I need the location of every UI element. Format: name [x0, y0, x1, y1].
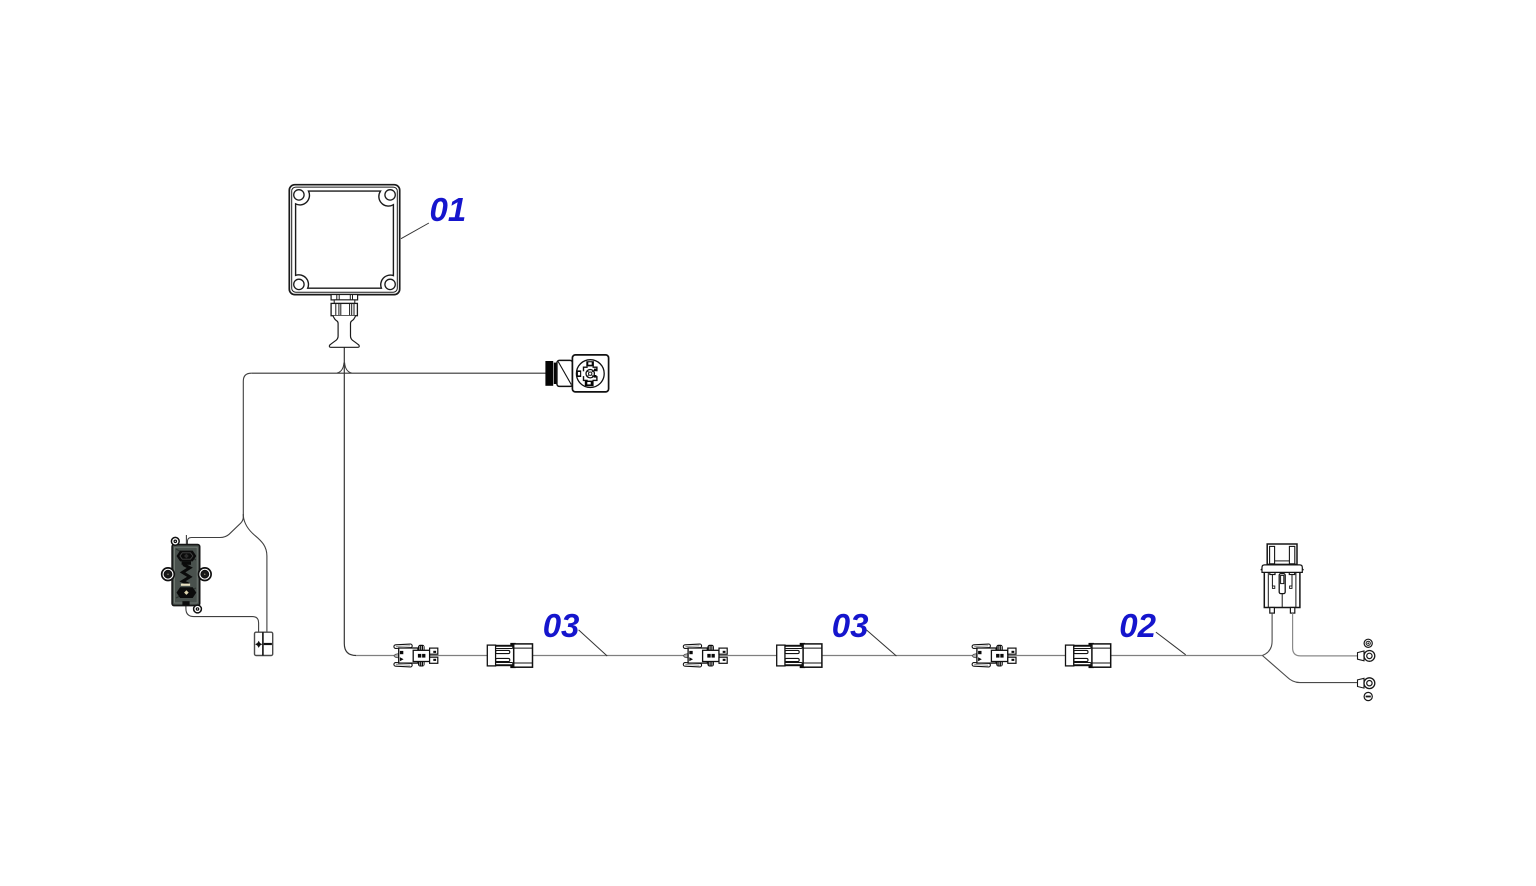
cable gland under module [329, 295, 359, 348]
connector pair 1 [394, 643, 533, 668]
screw hole BL [294, 279, 304, 289]
wire: relay left pin to junction [1262, 613, 1272, 655]
label 01 [401, 191, 466, 239]
relay connector [1261, 544, 1304, 613]
wire: relay right pin to upper ring [1293, 613, 1358, 656]
ring terminal upper [1358, 651, 1375, 662]
wire: left drop from trunk [243, 373, 251, 516]
wire: vertical trunk from gland to harness [344, 347, 356, 656]
label 03 second [832, 607, 897, 656]
wire: Y-split fillets [337, 363, 352, 374]
connector pair 3 [972, 643, 1111, 668]
wire: top trunk horizontal [251, 372, 545, 374]
label 03 first [543, 607, 608, 656]
wire: junction diagonal to lower ring [1262, 656, 1357, 683]
module 01 box [289, 185, 399, 295]
wire: flasher bottom to quad connector [186, 606, 259, 633]
flasher screw bottom [194, 605, 202, 613]
screw hole TR [385, 190, 395, 200]
flasher right ear [199, 568, 212, 581]
screw symbol plus [1364, 639, 1372, 647]
connector pair 2 [683, 643, 822, 668]
svg-text:02: 02 [1119, 607, 1156, 644]
screw hole BR [385, 279, 395, 289]
svg-text:03: 03 [832, 607, 869, 644]
relay pin left [1270, 608, 1275, 614]
M12 circular connector [545, 355, 608, 392]
flasher left ear [162, 568, 175, 581]
quad connector [255, 632, 273, 655]
wire: main harness horizontal [356, 655, 1262, 657]
wire: branch to quad connector [243, 516, 267, 632]
relay pin right [1290, 608, 1294, 614]
svg-text:03: 03 [543, 607, 580, 644]
label 02 [1119, 607, 1185, 655]
screw symbol minus [1364, 692, 1372, 700]
screw hole TL [294, 190, 304, 200]
svg-text:01: 01 [430, 191, 467, 228]
wire: branch to flasher [187, 514, 243, 546]
ring terminal lower [1358, 678, 1375, 689]
flasher unit [162, 535, 211, 613]
flasher screw top [171, 537, 179, 545]
